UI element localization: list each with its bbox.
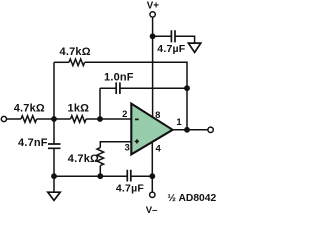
resistor R2 4.7k (feedback) — [69, 59, 85, 66]
svg-text:2: 2 — [122, 109, 127, 120]
svg-text:8: 8 — [155, 110, 160, 121]
wire node A up — [53, 62, 55, 119]
svg-text:1.0nF: 1.0nF — [104, 72, 134, 84]
wire input row — [7, 118, 21, 120]
terminal output — [208, 127, 213, 132]
svg-text:4.7kΩ: 4.7kΩ — [68, 153, 99, 165]
svg-text:1: 1 — [176, 117, 182, 128]
svg-text:1kΩ: 1kΩ — [68, 103, 90, 115]
junction pin2 node — [97, 116, 103, 122]
wire top rail left — [54, 61, 69, 63]
svg-text:3: 3 — [125, 143, 130, 154]
svg-text:4.7µF: 4.7µF — [116, 183, 144, 195]
svg-text:4: 4 — [156, 143, 162, 154]
wire V+ decouple — [153, 35, 172, 37]
op-amp minus sign — [135, 118, 139, 120]
input terminal — [1, 116, 6, 121]
wire — [37, 118, 71, 120]
resistor R3 1k — [71, 116, 87, 123]
junction V+ — [150, 33, 156, 39]
junction right rail C2 — [184, 85, 190, 91]
wire — [100, 87, 116, 89]
junction output node — [184, 127, 190, 133]
wire pin4 to V- — [151, 143, 153, 192]
svg-text:4.7nF: 4.7nF — [18, 137, 48, 149]
wire — [99, 166, 101, 177]
wire — [53, 148, 55, 176]
wire — [120, 87, 187, 89]
svg-text:½ AD8042: ½ AD8042 — [167, 193, 216, 204]
capacitor C4 4.7uF (top) — [171, 30, 175, 42]
svg-text:4.7µF: 4.7µF — [157, 43, 185, 55]
junction node A — [51, 116, 57, 122]
capacitor C2 1.0nF — [116, 82, 120, 94]
ground (top right) — [188, 43, 200, 52]
svg-text:4.7kΩ: 4.7kΩ — [60, 46, 91, 58]
wire top rail right — [85, 62, 187, 130]
svg-text:V+: V+ — [147, 1, 159, 12]
op-amp plus sign — [135, 139, 139, 143]
resistor R4 4.7k (vertical) — [97, 148, 104, 166]
svg-text:V–: V– — [146, 205, 158, 216]
junction ground rail — [51, 173, 57, 179]
capacitor C1 4.7nF — [48, 144, 61, 148]
capacitor C3 4.7uF (bottom) — [127, 170, 131, 182]
wire bottom rail left — [54, 175, 127, 177]
wire to pin 2 — [86, 118, 131, 120]
svg-text:4.7kΩ: 4.7kΩ — [14, 103, 45, 115]
wire bottom rail right — [131, 175, 153, 177]
ground (bottom left) — [53, 176, 55, 192]
wire V+ down to pin 8 — [152, 17, 154, 117]
junction R4 bottom — [97, 173, 103, 179]
junction V- pin4 — [149, 173, 155, 179]
wire pin 3 — [100, 142, 131, 148]
wire node A down — [53, 119, 55, 144]
wire output — [173, 129, 208, 131]
resistor R1 4.7k (input) — [21, 116, 37, 123]
terminal V- — [150, 192, 155, 197]
wire pin2 node up — [99, 88, 101, 119]
op-amp U1 — [131, 104, 172, 155]
terminal V+ — [150, 12, 155, 17]
wire — [175, 36, 195, 43]
